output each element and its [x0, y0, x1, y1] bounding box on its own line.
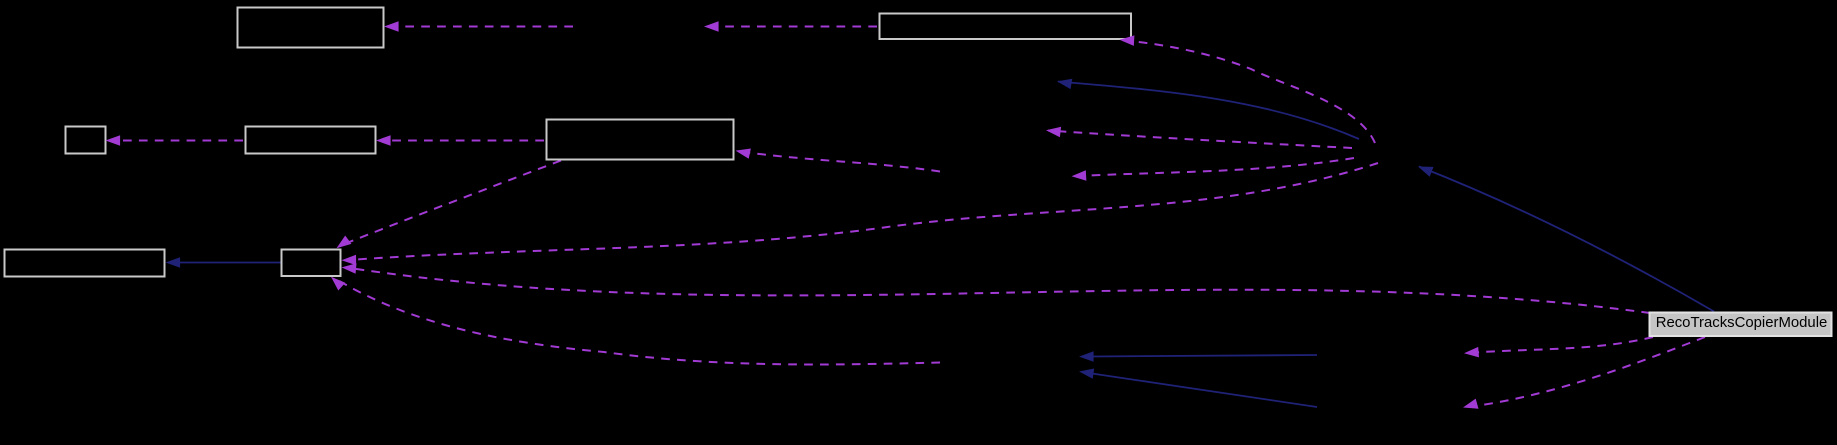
svg-text:RecoTracksCopierModule: RecoTracksCopierModule [1656, 315, 1828, 331]
